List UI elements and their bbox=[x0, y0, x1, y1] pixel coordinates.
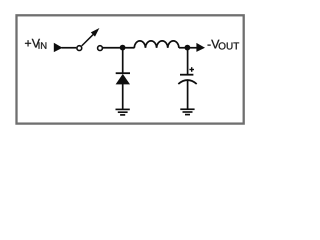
wire capacitor to ground bbox=[187, 80, 189, 109]
node B junction dot bbox=[185, 45, 191, 51]
wire node B to capacitor bbox=[187, 48, 189, 74]
node label +VIN bbox=[25, 39, 46, 49]
wire switch to node A bbox=[103, 47, 135, 49]
capacitor C1 polarity plus bbox=[189, 67, 194, 72]
switch S1 blade arrowhead bbox=[91, 28, 100, 37]
diode D1 anode triangle bbox=[116, 74, 130, 85]
inductor L1 bbox=[134, 41, 179, 48]
switch S1 right contact bbox=[98, 46, 103, 51]
switch S1 left contact bbox=[77, 46, 82, 51]
ground (capacitor) bbox=[180, 109, 194, 114]
input arrow (+VIN terminal) bbox=[54, 43, 63, 52]
wire node A to diode bbox=[122, 48, 124, 73]
switch S1 blade bbox=[82, 33, 95, 46]
node A junction dot bbox=[120, 45, 126, 51]
capacitor C1 curved plate bbox=[178, 80, 196, 84]
wire diode to ground bbox=[122, 84, 124, 109]
capacitor C1 positive plate bbox=[180, 74, 193, 76]
wire node B to output arrow bbox=[190, 47, 197, 49]
ground (diode) bbox=[116, 109, 130, 115]
diode D1 cathode bar bbox=[116, 72, 130, 74]
node label -VOUT bbox=[208, 40, 240, 50]
output arrow (-VOUT terminal) bbox=[196, 43, 205, 52]
wire inductor to node B bbox=[179, 47, 188, 49]
wire input arrow to switch contact bbox=[62, 47, 77, 49]
